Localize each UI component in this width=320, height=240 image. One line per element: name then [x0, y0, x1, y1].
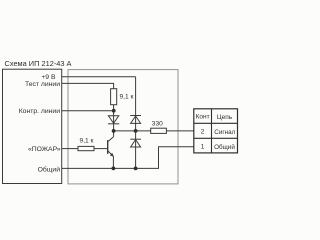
wire Тест линии: [62, 83, 114, 88]
wire right diode column: [135, 77, 137, 169]
svg-text:Общий: Общий: [38, 166, 61, 174]
wire +9 В: [62, 76, 136, 78]
junction node (VD2 / VD3 / signal line): [134, 129, 138, 133]
junction node (VD3 / common line): [134, 167, 138, 171]
resistor R3 330 (horizontal): [151, 128, 167, 133]
diode VD3 (lower right, cathode up): [130, 138, 141, 140]
wire Контр. линии: [62, 110, 114, 112]
wire base resistor to transistor base: [94, 148, 108, 150]
wire signal node line to 330 resistor: [114, 130, 151, 132]
svg-text:330: 330: [152, 121, 163, 128]
transistor Q1 base bar: [107, 140, 109, 154]
svg-text:«ПОЖАР»: «ПОЖАР»: [28, 146, 61, 153]
svg-text:9,1 к: 9,1 к: [80, 137, 94, 144]
svg-text:Цепь: Цепь: [217, 114, 233, 121]
svg-text:Сигнал: Сигнал: [214, 129, 235, 136]
detector circuit box: [68, 70, 178, 184]
diode VD2 (upper right, cathode up): [130, 115, 141, 117]
svg-text:Контр. линии: Контр. линии: [19, 108, 60, 115]
wire 330 resistor to table pin 2: [166, 130, 193, 132]
junction node (emitter / common line): [112, 167, 116, 171]
resistor R2 9,1 к (base, horizontal): [78, 146, 94, 150]
junction node (Контр. линии / R1 / VD1): [112, 109, 116, 113]
diode VD1 (left, cathode down): [108, 116, 118, 124]
svg-text:1: 1: [201, 143, 205, 150]
transistor Q1 emitter lead with arrow: [108, 151, 114, 169]
svg-text:Тест линии: Тест линии: [25, 81, 60, 88]
transistor Q1 (NPN) collector lead: [108, 137, 114, 142]
junction node (VD1 / collector / signal line): [112, 129, 116, 133]
left terminal box: [3, 69, 62, 183]
svg-text:Конт: Конт: [196, 114, 210, 121]
terminal table frame: [194, 109, 238, 153]
resistor R1 9,1 к (vertical): [111, 89, 117, 105]
svg-text:Схема ИП 212-43 А: Схема ИП 212-43 А: [5, 59, 72, 68]
svg-text:Общий: Общий: [214, 143, 235, 151]
svg-text:2: 2: [201, 128, 205, 135]
svg-text:9,1 к: 9,1 к: [120, 93, 134, 100]
wire «ПОЖАР» to base resistor: [62, 148, 78, 150]
wire left column (resistor to collector): [113, 105, 115, 137]
wire Общий common line: [62, 147, 194, 169]
